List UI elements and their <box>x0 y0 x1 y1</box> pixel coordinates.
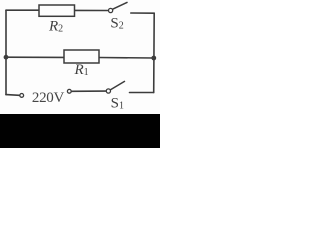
wire middle-right from R1 <box>99 57 154 60</box>
wire top between R2 and S2 <box>75 9 109 11</box>
node junction left <box>4 55 9 60</box>
node junction right <box>151 56 156 61</box>
wire top-right after S2 to corner <box>131 12 154 14</box>
resistor R2 <box>39 5 75 16</box>
wire top-left horizontal <box>6 9 39 11</box>
wire middle-left to R1 <box>6 56 64 58</box>
terminal left of 220V <box>20 94 24 98</box>
wire bottom-right after S1 to corner <box>130 92 154 94</box>
wire right vertical <box>153 13 156 92</box>
switch S1 <box>106 81 124 93</box>
wire left vertical <box>5 10 7 94</box>
terminal right of 220V <box>67 89 71 93</box>
wire bottom-left to terminal <box>6 94 19 97</box>
switch S2 <box>109 2 128 12</box>
resistor R1 <box>64 50 99 63</box>
black bar bottom <box>0 114 160 148</box>
svg-text:220V: 220V <box>32 90 65 106</box>
wire from terminal to S1 <box>72 90 106 92</box>
